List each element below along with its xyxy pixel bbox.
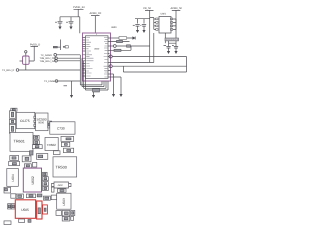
IC U600 body [86, 33, 109, 78]
row above U505 [11, 194, 16, 198]
component TR601 [10, 133, 33, 152]
svg-text:PVDD_D: PVDD_D [30, 43, 40, 46]
tiny boxes bottom [19, 219, 25, 223]
component C0J75 [16, 112, 34, 128]
ground risers right [112, 94, 123, 97]
capacitor C601 [55, 17, 63, 30]
component TR602 [45, 138, 58, 151]
connector CN600 left strip [9, 111, 15, 119]
capacitor C611 [133, 25, 140, 33]
small box between SC500 and C730 [48, 121, 52, 128]
caps under resistor pack [164, 41, 179, 54]
small boxes right of TR601 [34, 135, 39, 139]
series bead row4 [110, 46, 131, 52]
component C730 [50, 122, 75, 134]
net TXB_RFU_DAT [40, 60, 81, 63]
net TX_RFU_P long wire [2, 69, 80, 72]
power rail right B [171, 7, 183, 47]
svg-text:U503: U503 [62, 198, 66, 206]
node circle TXN wire [108, 65, 187, 68]
IC U600 left pin labels [86, 38, 93, 77]
small boxes under U503 [56, 211, 62, 216]
power rail PVDD top-left of IC [73, 6, 85, 17]
power rail right A [143, 7, 154, 63]
svg-text:TR602: TR602 [47, 143, 56, 147]
small box with dash under J502 [58, 189, 67, 193]
IC U600 left pins [83, 38, 86, 77]
svg-text:VD_50: VD_50 [143, 7, 151, 10]
svg-text:TXB_RFU_DAT: TXB_RFU_DAT [40, 60, 57, 63]
node circle row3 [110, 45, 150, 48]
net label arrow row1 right of IC [110, 37, 135, 40]
svg-text:AVDD_50: AVDD_50 [171, 7, 183, 10]
svg-text:C0J75: C0J75 [20, 119, 30, 123]
svg-text:TR500: TR500 [56, 166, 67, 170]
svg-text:PVDD_33: PVDD_33 [73, 6, 85, 9]
power rail AVDD above IC pin [90, 12, 102, 33]
svg-text:0000: 0000 [38, 122, 44, 125]
wire [60, 17, 80, 33]
small red box right [43, 205, 48, 214]
second small row [9, 161, 20, 165]
svg-text:J502: J502 [58, 184, 64, 187]
component U503 [57, 193, 71, 209]
wire risers right of IC bottom [110, 74, 121, 94]
caps column under C730 [61, 136, 74, 152]
svg-text:TX_RFU_P: TX_RFU_P [2, 69, 15, 72]
net TX_AGND [41, 54, 81, 57]
resistor pack R620 under U601 [165, 33, 179, 43]
svg-text:U601: U601 [161, 13, 167, 16]
svg-text:U505: U505 [21, 208, 29, 212]
svg-text:L604: L604 [11, 174, 15, 181]
component L604 [7, 169, 18, 187]
ground under IC [92, 92, 95, 98]
bus loop under IC [80, 55, 108, 90]
capacitor C612 [140, 25, 146, 33]
svg-text:AVDD_RF: AVDD_RF [90, 12, 102, 15]
connector J502 notched under TR500 [52, 182, 72, 188]
wire mid row [110, 33, 154, 63]
capacitor C602 [66, 17, 74, 30]
red narrow component right of U505 [37, 201, 42, 219]
IC U600 right pins [108, 38, 111, 77]
svg-text:C730: C730 [57, 127, 65, 131]
crystal Y600 left [20, 43, 41, 70]
component U602 purple [23, 168, 41, 192]
narrow box left of J502-under [51, 187, 54, 192]
IC U601 [154, 13, 176, 33]
net stub small left of IC [53, 40, 68, 51]
component TR500 [53, 157, 77, 177]
component U505 highlighted red [15, 200, 35, 219]
column right of U602 [43, 172, 48, 176]
svg-text:U600: U600 [94, 48, 100, 51]
net TX_ENABLE [44, 80, 80, 83]
op IC U600 outer highlight box [83, 33, 111, 81]
ground drop left [64, 81, 74, 98]
svg-text:TR601: TR601 [14, 139, 25, 143]
svg-text:U600: U600 [111, 26, 117, 29]
left column lower boxes [4, 187, 11, 193]
net TXB_RFU_CLK [40, 57, 81, 60]
bead under IC [93, 89, 100, 92]
rail wire caps [135, 18, 154, 24]
series bead row2 [110, 40, 130, 42]
component SC500 [34, 113, 48, 131]
node circle TXP long wire [108, 55, 187, 72]
tiny pair left of U505 [8, 204, 11, 209]
svg-text:U602: U602 [31, 176, 35, 184]
flat box above TR500 [53, 151, 60, 155]
row below TR601 [10, 156, 19, 161]
small box atop connector [11, 108, 17, 111]
IC U600 right pin labels [104, 38, 108, 78]
